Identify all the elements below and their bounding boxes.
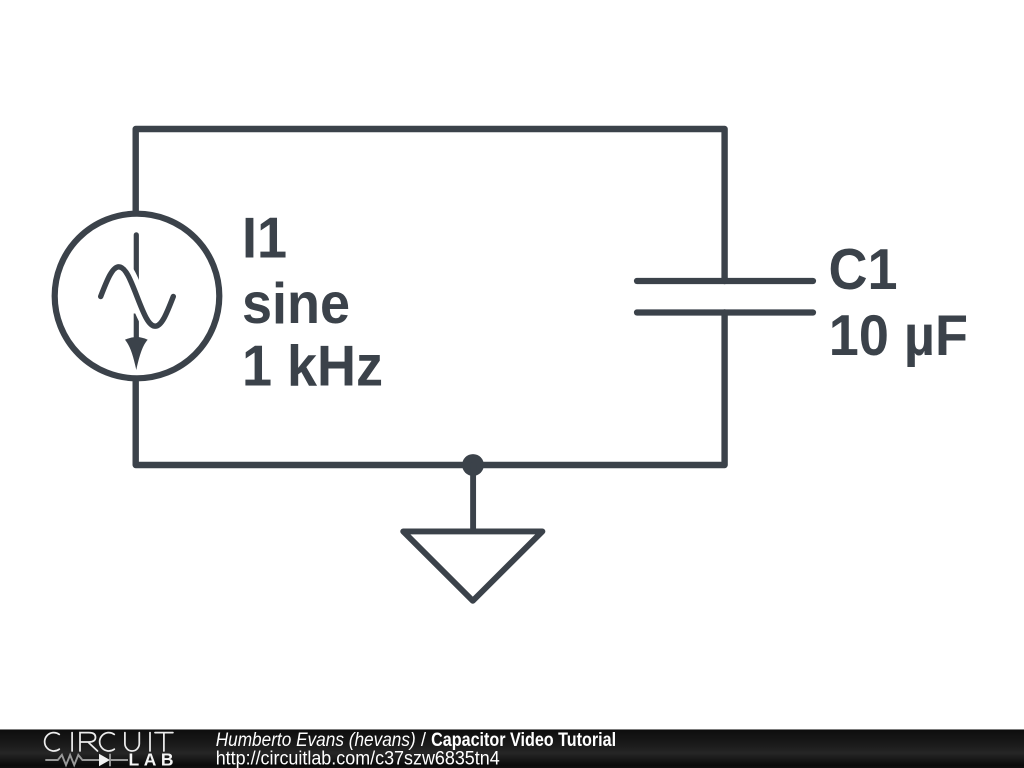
svg-text:sine: sine — [242, 271, 350, 335]
svg-text:1 kHz: 1 kHz — [242, 334, 383, 398]
svg-text:http://circuitlab.com/c37szw68: http://circuitlab.com/c37szw6835tn4 — [216, 748, 500, 768]
svg-text:C1: C1 — [829, 237, 898, 301]
svg-text:LAB: LAB — [129, 749, 178, 768]
svg-text:10 µF: 10 µF — [829, 304, 968, 368]
svg-text:I1: I1 — [242, 206, 287, 270]
